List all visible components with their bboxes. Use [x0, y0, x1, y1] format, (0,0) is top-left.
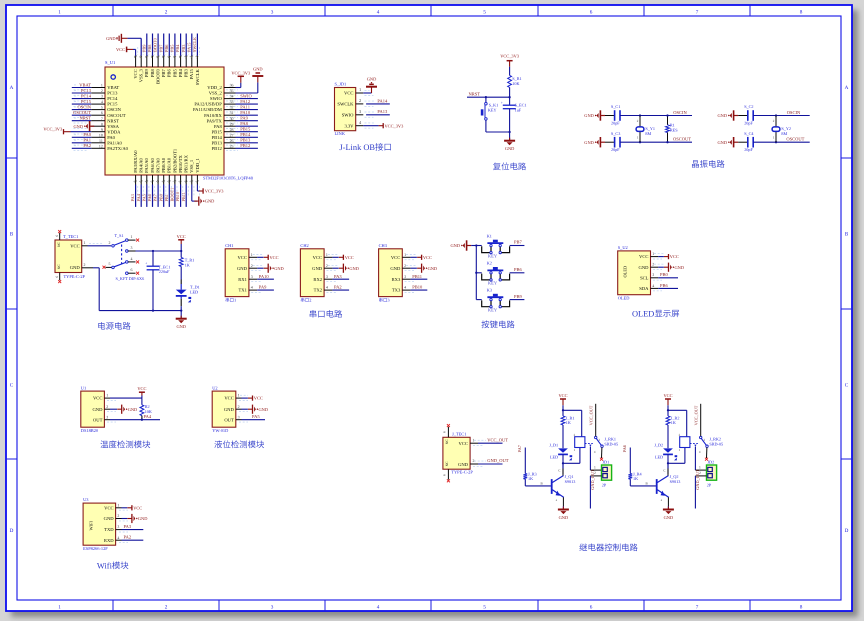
svg-text:PA9/TX: PA9/TX [207, 118, 223, 123]
title serial circuit [310, 310, 342, 318]
resistor R2 10K pullup [140, 398, 152, 421]
U1 pin 26 PB13 [224, 138, 258, 146]
capacitor S_C4 20pF [717, 131, 754, 152]
net label OSCIN S_Y2 [787, 110, 801, 115]
U1 pin 7 NRST [72, 116, 105, 124]
svg-text:220uF: 220uF [159, 269, 170, 274]
svg-text:TYPE-C-2P: TYPE-C-2P [451, 470, 473, 475]
svg-text:28: 28 [230, 128, 234, 132]
title reset circuit [493, 162, 526, 170]
title temperature module [100, 440, 150, 448]
svg-text:PC13: PC13 [81, 88, 92, 93]
svg-text:RES: RES [670, 128, 678, 133]
svg-text:GND: GND [664, 515, 674, 520]
U1 pin 22 PB11/RX [181, 175, 189, 207]
J_TEC1 pin names [458, 441, 469, 467]
S_U2 value OLED [618, 296, 630, 301]
U1 pin 4 PC15 [72, 99, 105, 107]
svg-text:VSS_1: VSS_1 [189, 159, 194, 173]
MCU U1 body STM32F103C8T6 [105, 67, 224, 175]
power port VCC relay J_RK2 [663, 393, 672, 405]
ground relay J_RK2 [663, 507, 674, 520]
svg-text:1: 1 [234, 298, 236, 303]
svg-text:PA1/A0: PA1/A0 [107, 140, 122, 145]
svg-text:U1: U1 [81, 385, 86, 390]
connector JD1 body [602, 465, 612, 480]
svg-text:27: 27 [230, 133, 234, 137]
capacitor S_EC1 1uF [501, 97, 527, 132]
U1 pin 30 PA9/TX [224, 116, 258, 124]
resistor J_R3 1K [523, 471, 536, 481]
U1 pin 11 PA1/A0 [72, 138, 105, 146]
svg-text:1K: 1K [566, 420, 571, 425]
relay J_RK1 switch [589, 436, 603, 454]
U2 module value YW-01D [212, 428, 228, 433]
U1 pin 23 VSS_1 [189, 175, 195, 196]
svg-text:S_C3: S_C3 [611, 131, 620, 136]
CH3 pin 3 net PB11 [402, 274, 427, 282]
U3 pin names [104, 505, 115, 542]
S_U2 pin names [639, 254, 650, 291]
svg-text:6: 6 [443, 474, 447, 476]
svg-text:GND: GND [70, 265, 81, 270]
svg-text:PB5: PB5 [170, 45, 175, 52]
svg-text:SWCLK: SWCLK [337, 102, 354, 107]
svg-text:8: 8 [800, 9, 803, 15]
T_TEC1 pin 1 wire to switch [82, 241, 112, 246]
svg-text:BOOT1: BOOT1 [170, 188, 175, 202]
svg-text:GND: GND [128, 407, 138, 412]
U1 pin 29 PA8 [224, 121, 258, 129]
svg-text:RX3: RX3 [392, 277, 401, 282]
net label OSCOUT S_Y1 [673, 137, 691, 142]
U1 pin 28 PB15 [224, 127, 258, 135]
svg-text:OSCIN: OSCIN [673, 110, 687, 115]
power ground at U1 top [106, 34, 127, 43]
svg-text:NRST: NRST [107, 118, 119, 123]
U1 pin 10 PA0 [72, 132, 105, 140]
svg-text:2: 2 [309, 298, 311, 303]
U3 pin 2 GND port [116, 514, 148, 523]
svg-text:PA1: PA1 [83, 138, 91, 143]
power port VCC [177, 234, 186, 244]
wire J_R2 to LED J_D2 [667, 425, 669, 448]
svg-text:4: 4 [377, 604, 380, 610]
svg-text:6: 6 [590, 9, 593, 15]
svg-text:TXD: TXD [104, 527, 114, 532]
svg-text:2: 2 [326, 264, 328, 268]
svg-text:PB7: PB7 [158, 44, 163, 52]
wire LED J_D2 to collector node [667, 448, 685, 475]
svg-text:VCC: VCC [639, 254, 648, 259]
svg-text:GND: GND [458, 462, 469, 467]
capacitor S_C3 20pF [584, 131, 620, 152]
U1 pin 9 VDDA [43, 127, 105, 135]
svg-text:NC: NC [445, 439, 449, 445]
svg-text:PB12: PB12 [240, 143, 250, 148]
svg-text:SWIO: SWIO [210, 96, 222, 101]
U1 pin 12 PA2TX/A0 [72, 143, 105, 151]
svg-text:29: 29 [230, 122, 234, 126]
wire LED J_D1 to collector node [562, 448, 580, 475]
svg-text:VCC_3V3: VCC_3V3 [500, 54, 520, 59]
svg-text:PA6/A0: PA6/A0 [150, 157, 155, 172]
svg-text:VCC: VCC [423, 255, 432, 260]
svg-text:GND_OUT: GND_OUT [590, 469, 595, 490]
power circuit bottom rail [99, 309, 182, 311]
wire U1 VDD_1 to VCC_3V3 port [197, 185, 199, 192]
svg-text:20pF: 20pF [611, 147, 620, 152]
wire U1 VSS_3 pin to GND port [127, 38, 141, 56]
resistor S_R1 10K [508, 75, 522, 87]
svg-text:2: 2 [238, 405, 240, 409]
U2 module pin1 VCC port [236, 394, 263, 401]
resistor J_R1 1K [561, 416, 574, 426]
crystal S_Y2 8M [772, 116, 791, 143]
U1 pin 6 OSCOUT [72, 110, 105, 118]
svg-text:GND: GND [559, 515, 569, 520]
svg-text:PB14: PB14 [240, 132, 251, 137]
relay J_RK1 dashed link [585, 443, 593, 445]
CH3 label [379, 298, 390, 303]
svg-text:6: 6 [590, 604, 593, 610]
svg-text:3: 3 [101, 95, 103, 99]
svg-text:PC15: PC15 [107, 102, 118, 107]
MCU part name STM32F103C8T6_LQFP48 [203, 176, 254, 181]
wire rows S_Y2 [753, 114, 810, 143]
svg-text:PB0/A0: PB0/A0 [161, 157, 166, 173]
svg-text:GND: GND [73, 124, 83, 129]
wire switch to VCC rail [136, 250, 183, 252]
svg-text:PB6: PB6 [660, 283, 669, 288]
OLED vertical label [623, 266, 628, 278]
svg-text:C: C [10, 382, 14, 388]
svg-text:30: 30 [230, 117, 234, 121]
U1 pin 35 VSS_2 [224, 89, 238, 95]
net label PA7 [517, 444, 526, 473]
svg-text:YW-01D: YW-01D [212, 428, 228, 433]
svg-text:PA15: PA15 [189, 68, 194, 79]
svg-text:7: 7 [696, 604, 699, 610]
CH3 pin 2 GND port [402, 264, 437, 273]
svg-text:J_D2: J_D2 [654, 443, 663, 448]
svg-text:6: 6 [55, 276, 59, 278]
U1 pin 41 PB5 [170, 34, 178, 68]
svg-text:1: 1 [106, 394, 108, 398]
svg-text:PB10: PB10 [175, 192, 180, 202]
svg-text:K2: K2 [487, 261, 492, 266]
border row ticks and letters [6, 85, 852, 534]
key K2 net PB6 [510, 267, 525, 273]
connector J_TEC1 body [443, 437, 470, 469]
svg-text:8M: 8M [645, 131, 651, 136]
svg-text:VDDA: VDDA [107, 129, 121, 134]
CH1 label [226, 298, 237, 303]
svg-text:C: C [663, 469, 665, 473]
svg-text:J_D1: J_D1 [549, 443, 558, 448]
svg-text:4: 4 [117, 536, 119, 540]
svg-text:3: 3 [106, 415, 108, 419]
svg-text:PB3: PB3 [181, 45, 186, 52]
U3 pin 3 net PA3 [116, 524, 144, 532]
svg-text:7: 7 [101, 117, 103, 121]
capacitor S_C2 20pF [717, 104, 753, 125]
svg-text:PA4: PA4 [144, 414, 152, 419]
CH1 pin 4 net PA9 [249, 285, 274, 293]
svg-text:PA3: PA3 [334, 274, 342, 279]
svg-text:JD1: JD1 [603, 459, 610, 464]
svg-text:S_U1: S_U1 [105, 60, 115, 65]
J_TEC1 pin 2 net GND_OUT [470, 458, 509, 466]
svg-text:VCC: VCC [344, 91, 353, 96]
svg-text:4: 4 [251, 286, 253, 290]
S_U2 designator [618, 245, 628, 250]
power port VCC_3V3 reset [500, 54, 520, 67]
svg-text:VCC: VCC [177, 234, 186, 239]
key K2 KEY [476, 261, 509, 286]
svg-text:2: 2 [84, 263, 86, 267]
wire J_Q1 emitter to GND [562, 497, 564, 509]
svg-text:S_U2: S_U2 [618, 245, 628, 250]
svg-text:34: 34 [230, 95, 234, 99]
svg-text:PA2: PA2 [334, 285, 342, 290]
net label NRST and wire [467, 92, 510, 99]
net label OSCIN S_Y1 [673, 110, 687, 115]
key K1 KEY [476, 233, 509, 258]
CH2 pin 4 net PA2 [324, 285, 349, 293]
svg-text:2P: 2P [602, 482, 607, 487]
U1 pin 33 PA12/USB/DP [224, 99, 258, 107]
key S_K1 KEY [481, 97, 498, 132]
svg-text:PA7: PA7 [517, 444, 522, 452]
svg-text:GND: GND [106, 36, 116, 41]
svg-text:PA6: PA6 [622, 444, 627, 452]
module U3 ESP8266 body [83, 503, 116, 545]
svg-text:1uF: 1uF [515, 108, 522, 113]
power port VCC temperature [137, 386, 146, 395]
svg-text:C: C [558, 469, 560, 473]
svg-text:SRD-05: SRD-05 [709, 441, 723, 446]
U1 pin 40 PB4 [175, 34, 183, 68]
switch T_S1 pole 1 [109, 235, 140, 252]
svg-text:20pF: 20pF [611, 120, 620, 125]
svg-text:VBAT: VBAT [107, 85, 119, 90]
svg-text:GND: GND [505, 146, 515, 151]
U1 pin 24 VDD_1 [194, 175, 200, 196]
U1 pin 32 PA11/USB/DM [224, 104, 258, 112]
svg-text:PB5: PB5 [172, 69, 177, 78]
svg-text:1: 1 [84, 241, 86, 245]
svg-text:6: 6 [55, 235, 59, 237]
svg-text:Wifi: Wifi [97, 562, 113, 571]
svg-text:PA3/RX/A0: PA3/RX/A0 [133, 150, 138, 173]
svg-text:PA8: PA8 [214, 124, 222, 129]
svg-text:VCC_3V3: VCC_3V3 [43, 127, 63, 132]
svg-text:S_KFT DIP-6X6: S_KFT DIP-6X6 [116, 276, 145, 281]
U2 module pin2 GND port [236, 405, 268, 414]
svg-text:VCC_3V3: VCC_3V3 [385, 123, 405, 128]
ground reset circuit [504, 132, 515, 151]
svg-text:32: 32 [230, 106, 234, 110]
svg-text:WIFI: WIFI [88, 520, 93, 530]
JD1 labels [602, 459, 609, 487]
T_TEC1 value TYPE-C-2P [64, 274, 86, 279]
svg-text:4: 4 [101, 100, 103, 104]
LED J_D2 [654, 443, 677, 461]
svg-text:GND: GND [717, 140, 727, 145]
svg-text:1K: 1K [671, 420, 676, 425]
U1 pin 2 PC13 [72, 88, 105, 96]
svg-text:VCC_3V3: VCC_3V3 [231, 70, 251, 75]
svg-text:PB4: PB4 [178, 69, 183, 78]
U1 module designator [81, 385, 86, 390]
svg-text:GND_OUT: GND_OUT [487, 458, 508, 463]
title wifi module [97, 561, 129, 570]
svg-text:OSCIN: OSCIN [107, 107, 121, 112]
U1 pin 15 PA5/A0 [141, 175, 149, 207]
svg-text:GND: GND [104, 516, 115, 521]
U1 pin 36 VDD_2 [224, 84, 238, 90]
svg-text:PB1: PB1 [164, 194, 169, 201]
svg-text:1: 1 [101, 84, 103, 88]
svg-text:PA10/RX: PA10/RX [204, 113, 222, 118]
svg-text:VCC: VCC [254, 396, 263, 401]
U1 pin 39 PB3 [181, 34, 189, 68]
wire relay J_RK1 to JD1 [590, 447, 601, 471]
title button circuit [481, 320, 514, 328]
svg-text:ESP8266-12F: ESP8266-12F [83, 546, 108, 551]
svg-text:RX1: RX1 [238, 277, 247, 282]
S_JD1 pin 1 wire to GND [356, 87, 374, 95]
svg-text:OSCIN: OSCIN [77, 104, 91, 109]
U1 pin 8 VSSA [73, 121, 105, 131]
svg-text:PA13: PA13 [377, 109, 388, 114]
title OLED display [632, 310, 679, 319]
svg-text:PA9: PA9 [240, 116, 248, 121]
svg-text:GND: GND [237, 266, 248, 271]
svg-text:NC: NC [445, 461, 449, 467]
svg-text:3: 3 [326, 275, 328, 279]
CH2 pin 2 GND port [324, 264, 359, 273]
switch T_S1 value S_KFT DIP-6X6 [116, 276, 145, 281]
T_TEC1 NC pins [55, 230, 61, 283]
svg-text:PA10: PA10 [259, 274, 270, 279]
svg-text:GND: GND [675, 265, 685, 270]
svg-text:B: B [845, 231, 849, 237]
svg-text:TYPE-C-2P: TYPE-C-2P [64, 274, 86, 279]
svg-text:SWCLK: SWCLK [195, 69, 200, 86]
CH3 pin 4 net PB10 [402, 285, 427, 293]
svg-text:VCC: VCC [270, 255, 279, 260]
U3 designator [83, 497, 89, 502]
svg-text:VDD_1: VDD_1 [195, 158, 200, 173]
wire T_R1 to LED [180, 267, 182, 290]
svg-text:5: 5 [483, 604, 486, 610]
reset bottom wire [486, 131, 511, 133]
svg-text:PB10/TX: PB10/TX [178, 155, 183, 173]
svg-text:1: 1 [404, 253, 406, 257]
svg-text:8: 8 [101, 122, 103, 126]
net VCC_OUT relay J_RK1 [589, 404, 596, 437]
svg-text:PB7: PB7 [514, 240, 523, 245]
svg-text:KEY: KEY [488, 253, 498, 258]
svg-text:3: 3 [131, 246, 133, 250]
svg-text:OSCOUT: OSCOUT [673, 137, 691, 142]
CH3 pin names [390, 255, 401, 293]
svg-text:D: D [845, 528, 849, 534]
S_JD1 pin 3 net PA13 [356, 109, 390, 117]
wire VCC node relay J_RK2 [667, 405, 687, 436]
svg-text:VCC: VCC [93, 396, 102, 401]
U1 module pin3 net PA4 [104, 414, 160, 422]
S_JD1 pin 2 net PA14 [356, 98, 390, 106]
svg-text:VCC: VCC [663, 393, 672, 398]
svg-text:S_C4: S_C4 [744, 131, 754, 136]
transistor J_Q1 S9013 [552, 463, 576, 502]
svg-text:31: 31 [230, 111, 234, 115]
ground relay J_RK1 [558, 507, 569, 520]
relay J_RK2 unused contact [705, 447, 708, 460]
S_U2 pin 3 net PB0 [651, 272, 679, 280]
svg-text:LED: LED [655, 454, 663, 459]
svg-text:STM32F103C8T6_LQFP48: STM32F103C8T6_LQFP48 [203, 176, 254, 181]
svg-text:3: 3 [251, 275, 253, 279]
U1 pin 19 PB1/A0 [164, 175, 172, 207]
svg-text:PB0: PB0 [660, 272, 669, 277]
resistor J_R4 1K [628, 471, 642, 481]
title liquid level module [214, 440, 264, 448]
transistor J_Q2 S9013 [657, 463, 681, 502]
svg-text:1: 1 [58, 9, 61, 15]
svg-text:VCC: VCC [133, 505, 142, 510]
svg-text:5: 5 [101, 106, 103, 110]
svg-text:1: 1 [326, 253, 328, 257]
svg-text:PB1/A0: PB1/A0 [167, 157, 172, 173]
svg-text:VCC: VCC [345, 255, 354, 260]
connector T_TEC1 TYPE-C body [55, 240, 82, 273]
CH2 label [301, 298, 312, 303]
svg-text:GND: GND [224, 407, 235, 412]
svg-text:VCC: VCC [70, 243, 79, 248]
relay J_RK2 switch [694, 436, 708, 454]
relay J_RK1 coil [574, 433, 585, 452]
U1 module pin names [92, 396, 103, 423]
svg-text:PB8: PB8 [147, 45, 152, 52]
svg-text:OLED: OLED [623, 266, 628, 278]
wire VCC to rail [180, 244, 182, 257]
svg-text:35: 35 [230, 89, 234, 93]
svg-text:GND: GND [259, 407, 269, 412]
svg-text:20pF: 20pF [744, 147, 753, 152]
S_U2 pin 1 VCC port [651, 252, 679, 259]
svg-text:VDD_2: VDD_2 [207, 85, 222, 90]
key K3 net PB9 [510, 294, 525, 300]
svg-text:PA5/A0: PA5/A0 [144, 157, 149, 172]
svg-text:PA9: PA9 [259, 285, 267, 290]
wire VCC node relay J_RK1 [562, 405, 582, 436]
U1 pin 17 PA7/A0 [153, 175, 161, 207]
U1 pin 34 SWIO [224, 93, 258, 101]
resistor T_R1 1K [179, 257, 194, 267]
power port VCC relay J_RK1 [558, 393, 567, 405]
CH2 designator [300, 243, 308, 248]
svg-text:10K: 10K [512, 81, 519, 86]
svg-text:6: 6 [131, 268, 133, 272]
button bus wire [475, 244, 477, 299]
U1 pin 44 BOOT0 [153, 34, 161, 68]
svg-text:SWIO: SWIO [342, 112, 354, 117]
svg-text:PB10: PB10 [412, 285, 423, 290]
